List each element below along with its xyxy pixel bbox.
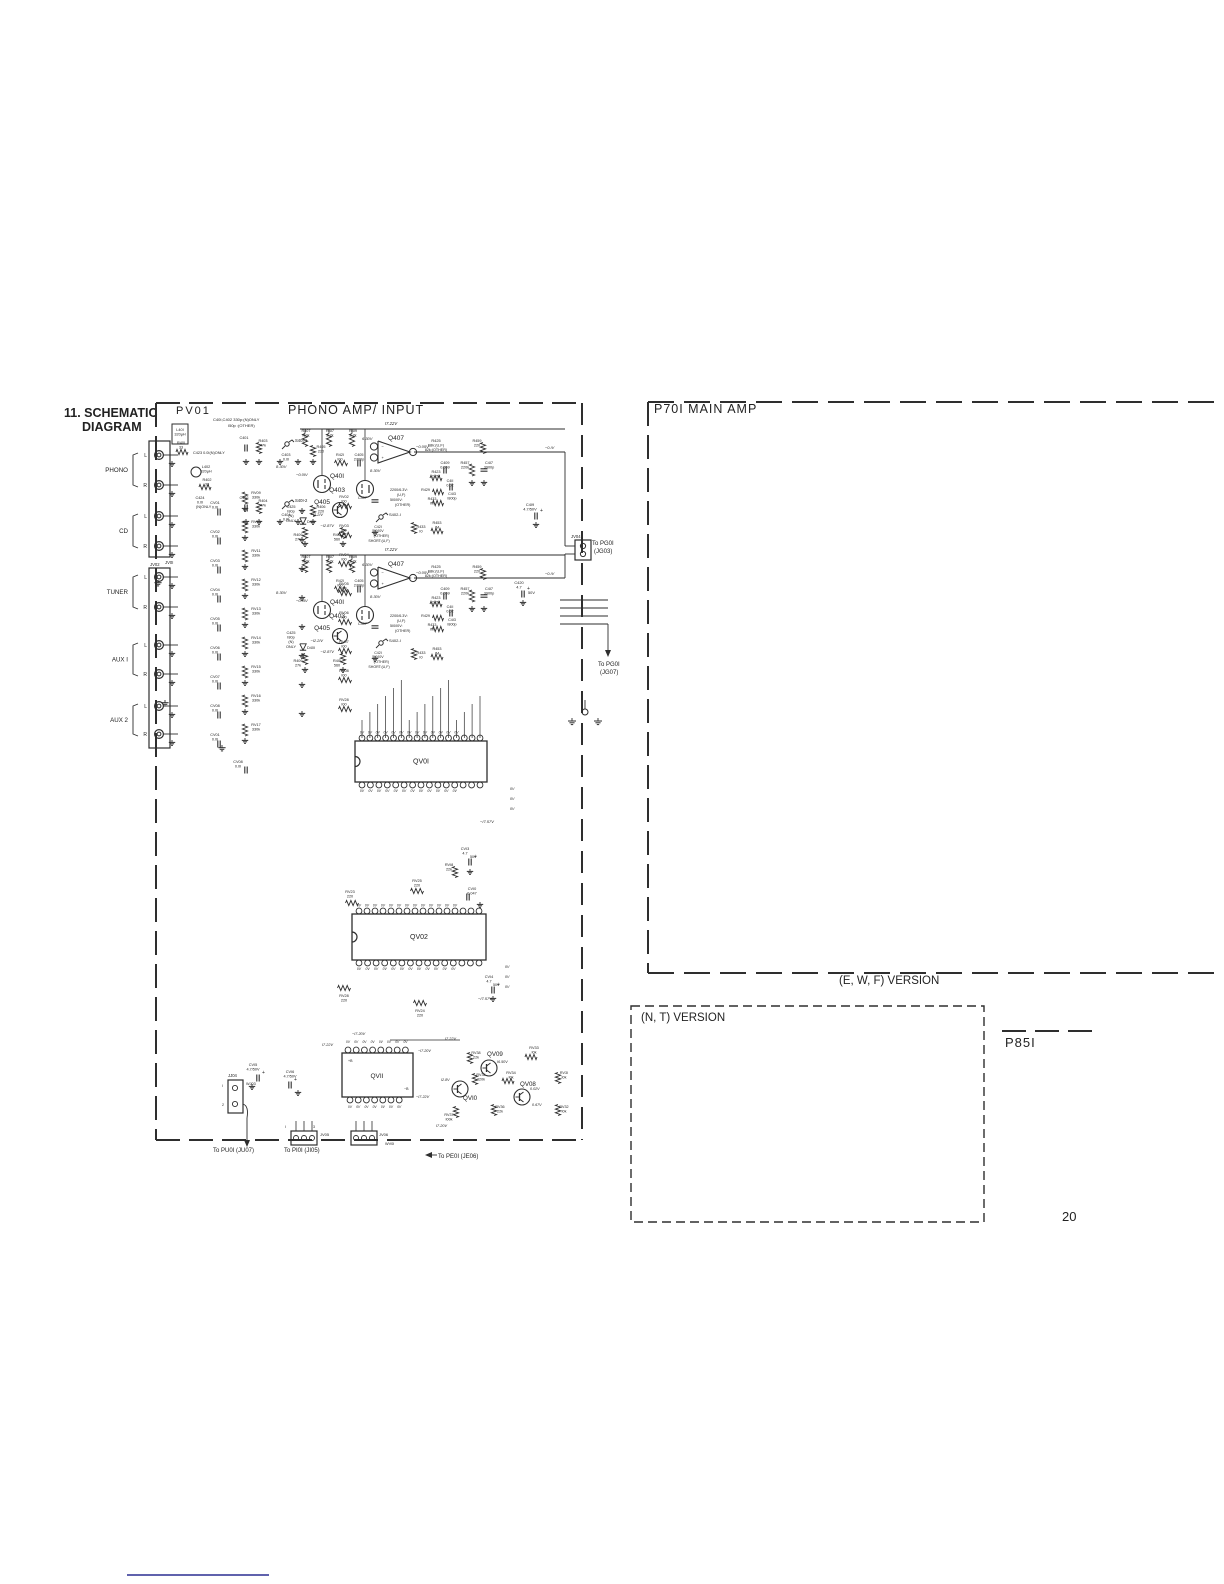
svg-text:0V: 0V (405, 904, 410, 908)
svg-text:R453: R453 (432, 647, 441, 651)
svg-text:330k: 330k (252, 611, 260, 615)
svg-text:330k: 330k (252, 669, 260, 673)
svg-text:R409: R409 (293, 533, 302, 537)
svg-text:R459: R459 (472, 565, 481, 569)
svg-text:R: R (143, 732, 147, 738)
svg-text:RV11: RV11 (251, 549, 260, 553)
svg-text:4.7: 4.7 (462, 851, 467, 855)
svg-text:2200/6.3V:: 2200/6.3V: (390, 614, 408, 618)
svg-text:WJ03: WJ03 (246, 1082, 256, 1086)
svg-text:0.059: 0.059 (440, 591, 450, 595)
svg-text:R4I7: R4I7 (326, 429, 334, 433)
svg-text:2700p: 2700p (354, 457, 365, 461)
svg-text:R459: R459 (472, 439, 481, 443)
svg-text:−I2.87V: −I2.87V (320, 649, 334, 654)
svg-text:0V: 0V (437, 904, 442, 908)
svg-text:C40I,C402 330p:(N)ONLY: C40I,C402 330p:(N)ONLY (213, 417, 260, 422)
svg-text:IM: IM (430, 627, 434, 631)
svg-text:0V: 0V (415, 731, 420, 735)
svg-text:330k: 330k (252, 553, 260, 557)
svg-text:R403: R403 (258, 439, 267, 443)
svg-text:(JG03): (JG03) (594, 549, 612, 555)
svg-text:CVI5: CVI5 (249, 1063, 257, 1067)
svg-text:0V: 0V (454, 731, 459, 735)
svg-text:0V: 0V (444, 789, 449, 793)
svg-text:I0k: I0k (508, 1075, 513, 1079)
svg-text:I00: I00 (337, 457, 342, 461)
svg-text:L: L (144, 514, 147, 520)
svg-text:0V: 0V (505, 985, 510, 989)
svg-text:0V: 0V (377, 789, 382, 793)
svg-text:4.7/50V: 4.7/50V (246, 1067, 260, 1071)
svg-text:C407: C407 (358, 496, 367, 500)
svg-text:R4I9: R4I9 (349, 429, 357, 433)
svg-text:I50k: I50k (302, 433, 309, 437)
svg-text:0V: 0V (443, 967, 448, 971)
svg-text:R407: R407 (301, 555, 310, 559)
svg-text:R407: R407 (301, 429, 310, 433)
svg-text:220: 220 (414, 883, 420, 887)
svg-text:0V: 0V (385, 789, 390, 793)
svg-text:0V: 0V (391, 967, 396, 971)
svg-text:(U,F): (U,F) (397, 493, 405, 497)
svg-text:P70I MAIN AMP: P70I MAIN AMP (654, 402, 757, 416)
svg-text:R4I9: R4I9 (349, 555, 357, 559)
svg-text:0.047: 0.047 (467, 891, 477, 895)
svg-text:L40I: L40I (176, 428, 183, 432)
svg-text:RV15: RV15 (251, 665, 260, 669)
svg-text:RV10: RV10 (251, 520, 260, 524)
svg-text:R433: R433 (416, 651, 425, 655)
svg-text:0.0I: 0.0I (212, 621, 218, 625)
svg-text:0V: 0V (365, 904, 370, 908)
svg-text:RV12: RV12 (251, 578, 260, 582)
svg-text:220: 220 (474, 569, 480, 573)
svg-text:0V: 0V (429, 904, 434, 908)
svg-text:R433: R433 (416, 525, 425, 529)
svg-text:Q405: Q405 (314, 625, 330, 632)
svg-text:33: 33 (179, 445, 183, 449)
svg-text:R4I5: R4I5 (333, 533, 341, 537)
svg-text:0V: 0V (373, 904, 378, 908)
svg-text:0V: 0V (368, 789, 373, 793)
svg-text:I00: I00 (337, 583, 342, 587)
svg-text:8.30V: 8.30V (276, 590, 287, 595)
svg-text:(E, W, F) VERSION: (E, W, F) VERSION (839, 975, 939, 987)
svg-text:Q40I: Q40I (330, 473, 344, 480)
svg-text:220: 220 (318, 449, 324, 453)
svg-text:R423: R423 (431, 596, 440, 600)
svg-text:6.30V: 6.30V (362, 436, 373, 441)
svg-text:0V: 0V (408, 967, 413, 971)
svg-text:330k: 330k (252, 524, 260, 528)
svg-text:(N): (N) (288, 514, 294, 518)
svg-text:To PG0I: To PG0I (598, 662, 620, 668)
svg-text:+B: +B (348, 1059, 353, 1063)
svg-text:220: 220 (341, 998, 347, 1002)
svg-text:Q405: Q405 (314, 499, 330, 506)
svg-text:CD: CD (119, 528, 128, 535)
svg-text:+: + (540, 508, 543, 514)
svg-text:ONLY: ONLY (286, 645, 297, 649)
svg-text:0.0I: 0.0I (212, 563, 218, 567)
svg-text:0.0I: 0.0I (212, 650, 218, 654)
svg-text:(N)ONLY: (N)ONLY (196, 505, 212, 509)
svg-text:To PG0I: To PG0I (592, 541, 614, 547)
svg-text:−I2.2IV: −I2.2IV (311, 638, 324, 643)
svg-text:−0.0IV: −0.0IV (296, 472, 308, 477)
svg-text:I800p: I800p (447, 496, 456, 500)
svg-text:3900p: 3900p (484, 591, 495, 595)
svg-text:I: I (222, 1084, 223, 1088)
svg-text:0V: 0V (411, 789, 416, 793)
svg-text:P85I: P85I (1005, 1035, 1036, 1050)
svg-text:50V: 50V (470, 855, 477, 859)
svg-text:320μH: 320μH (174, 432, 186, 436)
svg-text:S40I-2: S40I-2 (295, 498, 308, 503)
svg-text:I50p :(OTHER): I50p :(OTHER) (228, 423, 255, 428)
svg-text:TUNER: TUNER (107, 589, 129, 596)
svg-text:47k: 47k (260, 503, 266, 507)
svg-text:R4I7: R4I7 (326, 555, 334, 559)
svg-text:0V: 0V (419, 789, 424, 793)
svg-text:2: 2 (222, 1103, 224, 1107)
svg-text:RV34: RV34 (506, 1071, 515, 1075)
svg-text:0V: 0V (413, 904, 418, 908)
svg-text:−B: −B (404, 1087, 409, 1091)
svg-text:220: 220 (474, 443, 480, 447)
svg-text:C409: C409 (440, 461, 449, 465)
svg-text:20: 20 (1062, 1209, 1076, 1224)
svg-text:0V: 0V (423, 731, 428, 735)
svg-text:220k: 220k (477, 1077, 485, 1081)
svg-text:RV28: RV28 (339, 994, 348, 998)
svg-text:−0.IV: −0.IV (545, 571, 555, 576)
svg-text:2700p: 2700p (354, 583, 365, 587)
svg-text:(N): (N) (288, 640, 294, 644)
svg-text:0V: 0V (360, 731, 365, 735)
svg-text:I7.22V: I7.22V (385, 547, 398, 552)
svg-text:6.30V: 6.30V (362, 562, 373, 567)
svg-text:(JG07): (JG07) (600, 670, 618, 676)
svg-text:220k: 220k (461, 465, 469, 469)
svg-text:JV02: JV02 (150, 562, 160, 567)
svg-text:0V: 0V (505, 975, 510, 979)
svg-text:I: I (285, 1125, 286, 1129)
svg-text:C423 0.0I(N)ONLY: C423 0.0I(N)ONLY (193, 451, 225, 455)
svg-text:R: R (143, 544, 147, 550)
svg-text:0V: 0V (407, 731, 412, 735)
svg-text:D40I: D40I (307, 520, 315, 524)
svg-text:RV24: RV24 (415, 1009, 424, 1013)
svg-text:AUX 2: AUX 2 (110, 717, 128, 724)
svg-text:I2.8V: I2.8V (441, 1078, 450, 1082)
svg-text:(U,F): (U,F) (397, 619, 405, 623)
svg-text:2.2k: 2.2k (326, 433, 333, 437)
svg-text:0.0I: 0.0I (212, 505, 218, 509)
svg-text:PHONO: PHONO (105, 467, 128, 474)
svg-text:CVI3: CVI3 (461, 847, 469, 851)
svg-text:0V: 0V (376, 731, 381, 735)
svg-text:QV02: QV02 (410, 934, 428, 941)
svg-text:0V: 0V (383, 967, 388, 971)
svg-text:0V: 0V (453, 904, 458, 908)
svg-text:330k: 330k (252, 727, 260, 731)
svg-text:2200/6.3V:: 2200/6.3V: (390, 488, 408, 492)
svg-text:QVII: QVII (370, 1073, 383, 1080)
svg-text:11. SCHEMATIC: 11. SCHEMATIC (64, 406, 158, 420)
svg-text:2.2k: 2.2k (349, 433, 356, 437)
svg-text:0.0I: 0.0I (212, 708, 218, 712)
svg-text:L402: L402 (202, 465, 210, 469)
svg-text:220k: 220k (461, 591, 469, 595)
svg-text:SHORT:(U,F): SHORT:(U,F) (368, 665, 389, 669)
svg-text:IM: IM (435, 525, 439, 529)
svg-text:C4I7: C4I7 (485, 587, 493, 591)
svg-text:−I2.2IV: −I2.2IV (311, 512, 324, 517)
svg-text:I00: I00 (341, 673, 346, 677)
svg-text:C425: C425 (286, 505, 295, 509)
svg-text:68k:(U,F): 68k:(U,F) (428, 443, 445, 448)
svg-text:0V: 0V (397, 904, 402, 908)
svg-text:I0: I0 (419, 529, 422, 533)
svg-text:I80p: I80p (287, 509, 294, 513)
svg-text:8.30V: 8.30V (370, 594, 381, 599)
svg-text:C401: C401 (239, 436, 248, 440)
svg-text::(OTHER): :(OTHER) (373, 534, 389, 538)
svg-text:R4I5: R4I5 (333, 659, 341, 663)
svg-text:8.30V: 8.30V (370, 468, 381, 473)
svg-text:4.7/50V: 4.7/50V (283, 1074, 297, 1078)
svg-text:+: + (262, 1070, 265, 1076)
svg-text:RV13: RV13 (251, 607, 260, 611)
svg-text:(OTHER): (OTHER) (395, 629, 410, 633)
svg-text:QVI0: QVI0 (463, 1095, 478, 1102)
svg-text:−I7.20V: −I7.20V (352, 1032, 366, 1036)
svg-text:CV03: CV03 (210, 559, 220, 563)
svg-text:I0k: I0k (562, 1109, 567, 1113)
svg-text:JV05: JV05 (320, 1132, 330, 1137)
svg-text:RV17: RV17 (251, 723, 260, 727)
svg-text:0V: 0V (381, 904, 386, 908)
svg-text:4.7/50V: 4.7/50V (523, 507, 537, 512)
svg-text:R: R (143, 605, 147, 611)
svg-text:R457: R457 (460, 587, 469, 591)
svg-text:RV03: RV03 (339, 524, 348, 528)
svg-text:27k: 27k (295, 537, 301, 541)
svg-text:560: 560 (334, 537, 340, 541)
svg-text:L: L (144, 643, 147, 649)
svg-text:WV0I: WV0I (385, 1142, 394, 1146)
svg-text:220: 220 (347, 894, 353, 898)
svg-text:C424: C424 (195, 496, 204, 500)
svg-text:−0.IV: −0.IV (545, 445, 555, 450)
svg-text:3900p: 3900p (484, 465, 495, 469)
svg-text:560: 560 (334, 663, 340, 667)
svg-text:CVI4: CVI4 (485, 975, 493, 979)
svg-text:0V: 0V (434, 967, 439, 971)
svg-text:D40I: D40I (307, 646, 315, 650)
svg-text:I0: I0 (419, 655, 422, 659)
svg-text:0V: 0V (374, 967, 379, 971)
svg-text:0V: 0V (510, 797, 515, 801)
svg-text:I800p: I800p (447, 622, 456, 626)
svg-text:0.0I: 0.0I (212, 592, 218, 596)
svg-text:0V: 0V (453, 789, 458, 793)
svg-text:0V: 0V (431, 731, 436, 735)
svg-text:PHONO AMP/ INPUT: PHONO AMP/ INPUT (288, 403, 424, 417)
svg-text:0V: 0V (446, 731, 451, 735)
svg-text:C407: C407 (358, 622, 367, 626)
svg-text:ONLY: ONLY (286, 519, 297, 523)
svg-text:Q403: Q403 (329, 487, 345, 494)
svg-text:I7.20V: I7.20V (436, 1124, 447, 1128)
svg-text:Q407: Q407 (388, 435, 404, 442)
svg-text:220: 220 (417, 1013, 423, 1017)
svg-text:CV01: CV01 (210, 733, 220, 737)
svg-text:50V: 50V (528, 590, 535, 595)
svg-text:R423: R423 (431, 470, 440, 474)
svg-text:0.0I: 0.0I (197, 500, 203, 504)
svg-text:To PI0I (JI05): To PI0I (JI05) (284, 1148, 320, 1154)
svg-text:I00: I00 (341, 644, 346, 648)
svg-text:I7.22V: I7.22V (322, 1043, 333, 1047)
svg-text:CV05: CV05 (210, 617, 220, 621)
svg-text:−0.0IV: −0.0IV (296, 598, 308, 603)
svg-text:0V: 0V (400, 967, 405, 971)
svg-text:5I0/I0V:: 5I0/I0V: (390, 624, 403, 628)
svg-text:I00: I00 (341, 702, 346, 706)
svg-text:RV16: RV16 (251, 694, 260, 698)
svg-text:R409: R409 (293, 659, 302, 663)
svg-text:0.0I: 0.0I (235, 764, 241, 768)
svg-text:−I7.57V: −I7.57V (478, 996, 492, 1001)
svg-text:I50k: I50k (302, 559, 309, 563)
svg-text:(OTHER): (OTHER) (395, 503, 410, 507)
svg-text:AUX I: AUX I (112, 657, 128, 664)
svg-text:0V: 0V (389, 904, 394, 908)
svg-text:0V: 0V (368, 731, 373, 735)
svg-text:2.2M: 2.2M (432, 600, 440, 604)
svg-text:0V: 0V (366, 967, 371, 971)
svg-text:330k: 330k (252, 640, 260, 644)
svg-text:0V: 0V (391, 731, 396, 735)
svg-text:L: L (144, 704, 147, 710)
svg-text:0V: 0V (421, 904, 426, 908)
svg-text:C4I7: C4I7 (485, 461, 493, 465)
svg-text:R: R (143, 672, 147, 678)
svg-text:330k: 330k (252, 582, 260, 586)
svg-text:82k:(OTHER): 82k:(OTHER) (425, 574, 447, 578)
svg-text:22k: 22k (473, 1055, 479, 1059)
svg-text::(OTHER): :(OTHER) (373, 660, 389, 664)
svg-text:−I2.87V: −I2.87V (320, 523, 334, 528)
svg-text:JJ04: JJ04 (228, 1073, 238, 1078)
svg-text:(N, T) VERSION: (N, T) VERSION (641, 1012, 725, 1024)
svg-text:JV06: JV06 (379, 1132, 389, 1137)
svg-text:RV14: RV14 (251, 636, 260, 640)
svg-text:27k: 27k (295, 663, 301, 667)
svg-text:0V: 0V (439, 731, 444, 735)
svg-text:2.2M: 2.2M (432, 474, 440, 478)
svg-text:RV33: RV33 (529, 1046, 538, 1050)
svg-text:R42I: R42I (336, 579, 344, 583)
svg-text:I80p: I80p (287, 635, 294, 639)
svg-text:I00: I00 (341, 557, 346, 561)
svg-text:0.0I: 0.0I (283, 457, 289, 461)
svg-text:S402-I: S402-I (389, 512, 401, 517)
svg-text:DIAGRAM: DIAGRAM (82, 420, 142, 434)
svg-text:S402-I: S402-I (389, 638, 401, 643)
svg-text:320μH: 320μH (200, 469, 212, 473)
svg-text:RV02: RV02 (339, 495, 348, 499)
svg-text:R429: R429 (421, 488, 430, 492)
svg-text:0V: 0V (360, 789, 365, 793)
svg-text:0V: 0V (394, 789, 399, 793)
svg-text:68k:(U,F): 68k:(U,F) (428, 569, 445, 574)
svg-text:R404: R404 (258, 499, 267, 503)
svg-text:CV06: CV06 (210, 646, 220, 650)
svg-text:−I7.22V: −I7.22V (416, 1095, 430, 1099)
svg-text:RV28: RV28 (339, 698, 348, 702)
svg-text:33: 33 (205, 482, 209, 486)
svg-text:0.0I: 0.0I (212, 737, 218, 741)
svg-text:CV07: CV07 (210, 675, 220, 679)
svg-text:RV23: RV23 (345, 890, 354, 894)
svg-text:0.059: 0.059 (440, 465, 450, 469)
svg-text:0.67V: 0.67V (532, 1103, 542, 1107)
svg-text:RV25: RV25 (412, 879, 421, 883)
svg-text:CV08: CV08 (210, 704, 220, 708)
svg-text:CVI6: CVI6 (286, 1070, 294, 1074)
svg-text:Q403: Q403 (329, 613, 345, 620)
svg-text:RV09: RV09 (251, 491, 260, 495)
svg-text:QV09: QV09 (487, 1051, 503, 1058)
svg-text:C405: C405 (354, 579, 363, 583)
svg-text:5I0/I0V:: 5I0/I0V: (390, 498, 403, 502)
svg-text:CV02: CV02 (210, 530, 220, 534)
svg-text:4.7: 4.7 (486, 979, 491, 983)
svg-text:0V: 0V (510, 787, 515, 791)
svg-text:JV04: JV04 (571, 534, 581, 539)
svg-text:I0k: I0k (531, 1050, 536, 1054)
svg-text:C405: C405 (354, 453, 363, 457)
svg-text:I00k: I00k (446, 1117, 453, 1121)
svg-text:CV04: CV04 (210, 588, 220, 592)
svg-text:4.7: 4.7 (516, 585, 521, 590)
svg-text:50V: 50V (493, 983, 500, 987)
svg-text:0V: 0V (402, 789, 407, 793)
svg-text:22k: 22k (446, 867, 452, 871)
svg-text:0V: 0V (505, 965, 510, 969)
svg-text:0V: 0V (357, 967, 362, 971)
svg-text:PV01: PV01 (176, 405, 211, 417)
svg-text:0V: 0V (426, 967, 431, 971)
svg-text:IM: IM (435, 651, 439, 655)
svg-text:0.0I: 0.0I (212, 534, 218, 538)
svg-text:To PE0I (JE06): To PE0I (JE06) (438, 1154, 478, 1160)
svg-text:CVI0: CVI0 (468, 887, 476, 891)
svg-text:330k: 330k (252, 495, 260, 499)
svg-text:I6.50V: I6.50V (497, 1060, 508, 1064)
svg-text:RVI8: RVI8 (445, 863, 453, 867)
svg-text:0V: 0V (399, 731, 404, 735)
svg-text:47k: 47k (260, 443, 266, 447)
svg-text:R40I: R40I (177, 441, 185, 445)
svg-text:I7.22V: I7.22V (385, 421, 398, 426)
svg-text:−I7.20V: −I7.20V (418, 1049, 431, 1053)
svg-text:R429: R429 (421, 614, 430, 618)
